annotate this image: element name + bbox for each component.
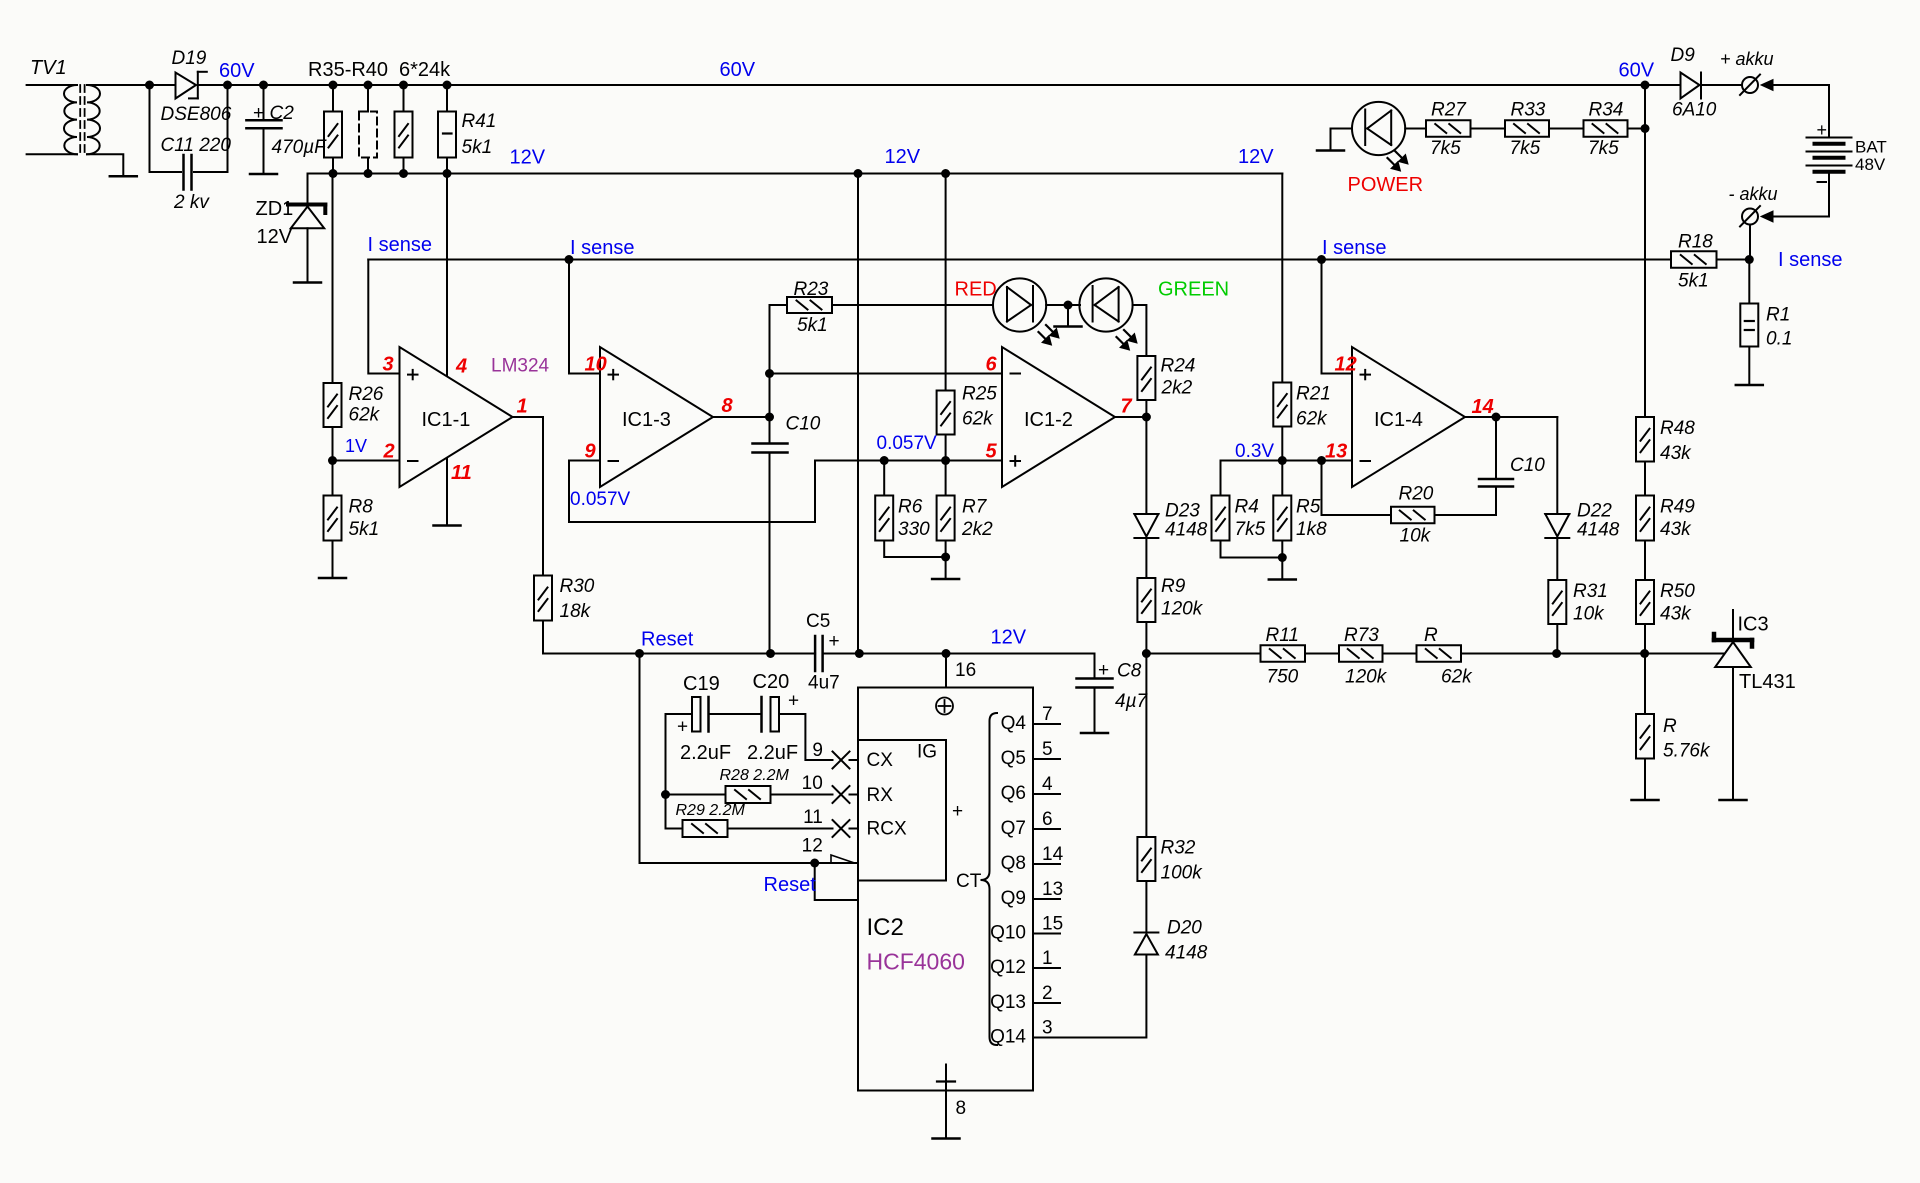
svg-text:6*24k: 6*24k — [399, 59, 451, 81]
ground (R1) — [1736, 384, 1763, 387]
svg-text:IG: IG — [917, 742, 937, 763]
svg-text:10: 10 — [585, 354, 607, 376]
svg-text:IC3: IC3 — [1738, 614, 1769, 636]
svg-text:HCF4060: HCF4060 — [867, 949, 965, 975]
svg-text:12V: 12V — [510, 147, 546, 169]
wire IC1-4 pin13 — [1221, 460, 1353, 462]
wire R30 to Reset rail — [543, 621, 640, 654]
svg-text:0.3V: 0.3V — [1235, 441, 1274, 462]
resistor R49 — [1636, 496, 1654, 541]
pin12 flag — [831, 855, 855, 863]
svg-text:IC2: IC2 — [867, 914, 904, 941]
node R4/R5 — [1278, 553, 1287, 562]
svg-text:R27: R27 — [1431, 100, 1467, 121]
svg-text:CT: CT — [956, 871, 982, 892]
capacitor C19 — [666, 713, 693, 715]
resistor R29 — [666, 828, 683, 830]
svg-text:10k: 10k — [1400, 526, 1432, 547]
ground (C2) — [250, 173, 277, 176]
wire IC1-1 pin2 — [333, 460, 400, 462]
svg-text:C19: C19 — [683, 673, 720, 695]
wire Reset rail — [640, 653, 816, 655]
resistor R4 — [1220, 461, 1222, 496]
svg-text:I sense: I sense — [570, 237, 634, 259]
node I sense right — [1745, 255, 1754, 264]
svg-text:TV1: TV1 — [30, 57, 67, 79]
svg-text:R: R — [1424, 625, 1438, 646]
resistor R50 — [1636, 580, 1654, 624]
svg-text:14: 14 — [1472, 396, 1494, 418]
svg-text:D19: D19 — [172, 48, 207, 69]
svg-text:Q12: Q12 — [990, 957, 1026, 978]
svg-text:4: 4 — [455, 356, 467, 378]
svg-text:48V: 48V — [1855, 155, 1886, 174]
capacitor C10 (IC1-3 output) — [753, 442, 788, 445]
svg-text:43k: 43k — [1660, 604, 1692, 625]
svg-text:12: 12 — [802, 836, 823, 857]
svg-text:2.2uF: 2.2uF — [680, 742, 731, 764]
svg-text:750: 750 — [1267, 667, 1299, 688]
resistor R36-R39 (dashed) — [367, 85, 369, 112]
svg-text:1: 1 — [517, 396, 528, 418]
resistor R8 — [324, 496, 342, 541]
resistor R40 — [403, 85, 405, 112]
wire IC2 pin8 ground — [945, 1091, 947, 1139]
svg-text:5k1: 5k1 — [349, 519, 380, 540]
ground (ZD1) — [294, 281, 321, 284]
svg-text:4: 4 — [1042, 774, 1053, 795]
svg-text:5k1: 5k1 — [797, 315, 828, 336]
svg-text:R34: R34 — [1589, 100, 1624, 121]
svg-text:Q14: Q14 — [990, 1027, 1026, 1048]
node R9/R11 — [1142, 649, 1151, 658]
node IC2 pin16 — [942, 649, 951, 658]
node 12V drop — [855, 649, 864, 658]
svg-text:R41: R41 — [462, 111, 497, 132]
wire IC1-3 pin10 from I sense — [569, 260, 600, 374]
svg-text:60V: 60V — [1619, 60, 1655, 82]
wire R34 to 60V branch — [1628, 128, 1646, 130]
diode D23 — [1134, 513, 1158, 515]
svg-text:- akku: - akku — [1729, 184, 1778, 204]
op-amp IC1-4 — [1352, 347, 1465, 487]
svg-text:0.057V: 0.057V — [570, 489, 631, 510]
svg-text:R49: R49 — [1660, 497, 1695, 518]
svg-text:R11: R11 — [1266, 625, 1299, 646]
svg-text:R28 2.2M: R28 2.2M — [720, 767, 790, 784]
svg-text:8: 8 — [722, 395, 734, 417]
arrow - akku — [1761, 211, 1773, 222]
svg-text:13: 13 — [1042, 879, 1063, 900]
wire R to TL431 — [1461, 653, 1724, 655]
svg-text:IC1-4: IC1-4 — [1374, 409, 1423, 431]
svg-text:R73: R73 — [1344, 625, 1379, 646]
svg-text:7k5: 7k5 — [1235, 519, 1266, 540]
resistor R 5.76k — [1644, 654, 1646, 715]
ground (R5) — [1269, 578, 1296, 581]
wire - akku to I sense node — [1749, 225, 1751, 260]
svg-text:5: 5 — [1042, 739, 1053, 760]
svg-text:4u7: 4u7 — [808, 673, 840, 694]
svg-text:Q6: Q6 — [1001, 783, 1026, 804]
wire R 5.76k to ground — [1644, 759, 1646, 801]
capacitor C11 bypass loop — [150, 85, 182, 172]
resistor R32 — [1137, 837, 1155, 881]
svg-text:+: + — [253, 103, 264, 124]
svg-text:Reset: Reset — [641, 629, 694, 651]
svg-text:4µ7: 4µ7 — [1115, 691, 1149, 712]
pin9 X mark — [833, 752, 850, 769]
resistor R73 — [1305, 653, 1339, 655]
wire 12V rail — [308, 173, 1283, 175]
svg-text:I sense: I sense — [1322, 237, 1386, 259]
LED GREEN — [1079, 278, 1132, 331]
svg-text:R: R — [1663, 716, 1677, 737]
svg-text:12: 12 — [1335, 354, 1357, 376]
svg-text:15: 15 — [1042, 914, 1063, 935]
wire battery to - akku — [1773, 216, 1829, 218]
svg-text:3: 3 — [1042, 1018, 1053, 1039]
TL431 IC3 — [1732, 610, 1734, 640]
svg-text:C10: C10 — [786, 414, 821, 435]
svg-text:2k2: 2k2 — [961, 519, 993, 540]
wire R4 bottom loop — [1221, 541, 1283, 558]
svg-text:7: 7 — [1121, 396, 1133, 418]
svg-text:IC1-2: IC1-2 — [1024, 409, 1073, 431]
svg-text:+: + — [788, 691, 799, 712]
resistor R25 — [945, 174, 947, 391]
wire 12V drop from rail — [857, 174, 859, 654]
svg-text:Q8: Q8 — [1001, 853, 1026, 874]
resistor R41 — [446, 85, 448, 112]
node 60V — [223, 81, 232, 90]
svg-text:4148: 4148 — [1165, 943, 1208, 964]
resistor R28 — [666, 794, 726, 796]
svg-text:120k: 120k — [1161, 599, 1204, 620]
resistor R 62k — [1383, 653, 1417, 655]
svg-text:62k: 62k — [1441, 667, 1473, 688]
node 0.057V — [880, 456, 889, 465]
ground (R7) — [932, 578, 959, 581]
pin10 X mark — [833, 786, 850, 803]
svg-text:9: 9 — [585, 441, 597, 463]
svg-text:Q13: Q13 — [990, 992, 1026, 1013]
svg-text:7k5: 7k5 — [1430, 138, 1461, 159]
resistor R9 — [1145, 538, 1147, 578]
svg-text:I sense: I sense — [1778, 249, 1842, 271]
terminal + akku — [1742, 77, 1758, 93]
svg-text:100k: 100k — [1161, 863, 1204, 884]
diode D19 — [150, 84, 176, 86]
svg-text:5: 5 — [986, 441, 998, 463]
svg-text:8: 8 — [956, 1098, 967, 1119]
svg-text:+: + — [677, 717, 688, 738]
ground (LED common) — [1067, 305, 1069, 327]
svg-text:10k: 10k — [1573, 604, 1605, 625]
svg-text:C8: C8 — [1117, 661, 1142, 682]
capacitor C5 — [814, 636, 817, 671]
svg-text:2: 2 — [1042, 983, 1053, 1004]
svg-text:IC1-3: IC1-3 — [622, 409, 671, 431]
wire IC1-1 pin11 to ground — [446, 458, 448, 526]
wire R6 bottom loop — [884, 541, 945, 558]
svg-text:R7: R7 — [962, 497, 988, 518]
svg-text:R33: R33 — [1511, 100, 1546, 121]
wire C20 to pin9 CX — [779, 714, 833, 760]
svg-text:470µF: 470µF — [272, 137, 328, 158]
wire I sense rail — [368, 259, 1671, 261]
svg-text:62k: 62k — [962, 409, 994, 430]
svg-text:R26: R26 — [349, 384, 384, 405]
svg-text:RCX: RCX — [867, 819, 907, 840]
svg-text:Q7: Q7 — [1001, 818, 1026, 839]
svg-text:TL431: TL431 — [1739, 671, 1796, 693]
svg-text:GREEN: GREEN — [1158, 279, 1229, 301]
svg-text:+: + — [1098, 660, 1109, 681]
diode D9 — [1645, 84, 1681, 86]
svg-text:6A10: 6A10 — [1672, 100, 1717, 121]
wire R32 branch — [1145, 654, 1147, 838]
transformer TV1 — [27, 84, 77, 86]
resistor R7 — [937, 496, 955, 541]
wire output node vertical — [769, 305, 771, 444]
svg-text:6: 6 — [1042, 809, 1053, 830]
wire secondary top — [87, 84, 150, 86]
wire GREEN LED to R24 — [1133, 305, 1147, 356]
wire IC1-2 output — [1115, 416, 1146, 418]
wire IC1-1 pin3 from I sense — [368, 260, 399, 374]
IC2 power symbol — [936, 698, 953, 715]
wire IC1-1 pin4 supply — [446, 174, 448, 377]
capacitor C8 — [1077, 677, 1113, 680]
svg-text:10: 10 — [802, 773, 823, 794]
svg-text:1V: 1V — [345, 436, 367, 456]
wire output node down to D23 — [1145, 417, 1147, 514]
svg-text:5k1: 5k1 — [1678, 271, 1709, 292]
resistor R1 — [1748, 260, 1750, 304]
wire IC1-1 output to R30 — [513, 417, 544, 576]
capacitor C10 (IC1-4) — [1479, 478, 1513, 481]
capacitor C2 — [259, 81, 268, 90]
svg-text:R29 2.2M: R29 2.2M — [676, 802, 746, 819]
resistor R20 feedback — [1322, 461, 1392, 516]
ground (transformer) — [110, 175, 137, 178]
node R6/R7 — [941, 553, 950, 562]
svg-text:R21: R21 — [1296, 384, 1331, 405]
wire Reset to pin12 — [640, 654, 859, 864]
svg-text:+: + — [952, 801, 963, 822]
ground (R 5.76k) — [1632, 799, 1659, 802]
svg-text:R5: R5 — [1296, 497, 1321, 518]
svg-text:9: 9 — [812, 740, 823, 761]
svg-text:R32: R32 — [1161, 838, 1196, 859]
LED RED — [993, 278, 1046, 331]
svg-text:+: + — [1817, 120, 1828, 140]
op-amp IC1-1 — [400, 347, 513, 487]
resistor R5 — [1273, 496, 1291, 541]
LED POWER — [1352, 102, 1405, 155]
IC2 inner oscillator box IG — [858, 740, 946, 881]
svg-text:1k8: 1k8 — [1296, 519, 1327, 540]
ground (R8) — [319, 577, 346, 580]
svg-text:2.2uF: 2.2uF — [747, 742, 798, 764]
wire IC1-4 output — [1465, 416, 1557, 418]
wire IC1-3 pin9 loop — [569, 461, 1002, 523]
wire POWER LED to ground — [1331, 129, 1353, 151]
svg-text:3: 3 — [383, 354, 394, 376]
svg-text:R48: R48 — [1660, 418, 1695, 439]
resistor R33 — [1471, 128, 1506, 130]
svg-text:120k: 120k — [1345, 667, 1388, 688]
svg-text:7: 7 — [1042, 704, 1053, 725]
svg-text:43k: 43k — [1660, 519, 1692, 540]
svg-text:I sense: I sense — [368, 234, 432, 256]
wire D20 to Q14 — [1033, 955, 1146, 1038]
svg-text:R4: R4 — [1235, 497, 1259, 518]
resistor R18 — [1671, 251, 1717, 268]
IC2 internal ground — [945, 1065, 947, 1091]
svg-text:D23: D23 — [1165, 501, 1200, 522]
battery BAT 48V — [1828, 85, 1830, 138]
wire IC2 pin16 — [945, 654, 947, 688]
svg-text:R6: R6 — [898, 497, 923, 518]
resistor R31 — [1556, 538, 1558, 580]
svg-text:POWER: POWER — [1348, 174, 1424, 196]
wire R20 to C10 — [1435, 514, 1497, 516]
svg-text:12V: 12V — [257, 226, 293, 248]
svg-text:4148: 4148 — [1577, 520, 1620, 541]
svg-text:CX: CX — [867, 750, 894, 771]
wire 60V rail — [228, 84, 1646, 86]
svg-text:4148: 4148 — [1165, 520, 1208, 541]
svg-text:60V: 60V — [720, 59, 756, 81]
svg-text:6: 6 — [986, 354, 998, 376]
ground (POWER LED) — [1317, 149, 1344, 152]
wire to D22 — [1556, 417, 1558, 514]
svg-text:R24: R24 — [1161, 356, 1196, 377]
svg-text:14: 14 — [1042, 844, 1064, 865]
ground (IC2 pin8) — [933, 1137, 960, 1140]
svg-text:43k: 43k — [1660, 443, 1692, 464]
svg-text:ZD1: ZD1 — [256, 198, 294, 220]
wire IC1-4 pin12 from I sense — [1322, 260, 1353, 374]
wire C19 left to R28/R29 — [665, 714, 667, 829]
resistor R48 — [1636, 417, 1654, 462]
svg-text:18k: 18k — [560, 601, 592, 622]
svg-text:5.76k: 5.76k — [1663, 741, 1711, 762]
node 1V — [332, 427, 334, 496]
svg-text:IC1-1: IC1-1 — [422, 409, 471, 431]
zener ZD1 — [307, 174, 309, 204]
svg-text:R35-R40: R35-R40 — [308, 59, 388, 81]
svg-text:R8: R8 — [349, 497, 374, 518]
svg-text:R18: R18 — [1678, 232, 1713, 253]
svg-text:2k2: 2k2 — [1161, 378, 1193, 399]
resistor R27 — [1405, 128, 1426, 130]
capacitor C20 — [760, 697, 763, 732]
svg-text:5k1: 5k1 — [462, 137, 493, 158]
ground (TL431) — [1720, 799, 1747, 802]
svg-text:+ akku: + akku — [1720, 49, 1774, 69]
diode D20 — [1145, 881, 1147, 933]
transformer core — [79, 85, 81, 154]
svg-text:C10: C10 — [1510, 455, 1545, 476]
wire IC1-2 pin6 — [770, 373, 1003, 375]
resistor R30 — [534, 576, 552, 621]
svg-text:0.057V: 0.057V — [877, 433, 938, 454]
resistor R21 — [1281, 174, 1283, 383]
svg-text:+: + — [829, 631, 840, 652]
svg-text:R23: R23 — [794, 279, 829, 300]
IC2 box — [858, 688, 1033, 1091]
svg-text:Q9: Q9 — [1001, 888, 1026, 909]
svg-text:BAT: BAT — [1855, 138, 1887, 157]
svg-text:2 kv: 2 kv — [173, 192, 210, 213]
svg-text:RED: RED — [955, 279, 997, 301]
svg-text:11: 11 — [803, 807, 823, 828]
svg-text:DSE806: DSE806 — [161, 104, 232, 125]
resistor R26 — [332, 174, 334, 384]
resistor R6 — [883, 461, 885, 496]
svg-text:13: 13 — [1325, 441, 1347, 463]
resistor R34 — [1549, 128, 1584, 130]
svg-text:60V: 60V — [219, 60, 255, 82]
svg-text:2: 2 — [383, 441, 395, 463]
svg-text:12V: 12V — [885, 146, 921, 168]
wire pin12 loop — [815, 863, 858, 900]
wire 12V to C8 — [946, 654, 1095, 679]
resistor R11 — [1146, 653, 1260, 655]
pin11 X mark — [833, 820, 850, 837]
wire 60V branch down to R48 — [1644, 85, 1646, 417]
op-amp IC1-2 — [1002, 347, 1115, 487]
node LED common — [1064, 301, 1073, 310]
svg-text:1: 1 — [1042, 948, 1053, 969]
svg-text:0.1: 0.1 — [1766, 329, 1792, 350]
svg-text:C2: C2 — [270, 103, 295, 124]
node 60V / R34 — [1641, 81, 1650, 90]
svg-text:Reset: Reset — [764, 874, 817, 896]
svg-text:62k: 62k — [349, 405, 381, 426]
svg-text:C20: C20 — [753, 671, 790, 693]
terminal - akku — [1742, 209, 1758, 225]
arrow + akku — [1761, 80, 1773, 91]
wire secondary bottom to ground — [87, 154, 123, 176]
svg-text:C5: C5 — [806, 611, 830, 632]
ground (C8) — [1081, 732, 1108, 735]
svg-text:LM324: LM324 — [491, 356, 550, 377]
svg-text:7k5: 7k5 — [1588, 138, 1619, 159]
svg-text:RX: RX — [867, 785, 894, 806]
svg-text:R1: R1 — [1766, 305, 1790, 326]
node at D19 anode — [145, 81, 154, 90]
svg-text:7k5: 7k5 — [1510, 138, 1541, 159]
svg-text:R30: R30 — [560, 576, 595, 597]
nodes on 60V rail — [329, 81, 338, 90]
svg-text:D22: D22 — [1577, 501, 1612, 522]
svg-text:R20: R20 — [1399, 484, 1434, 505]
svg-text:16: 16 — [955, 660, 976, 681]
svg-text:R31: R31 — [1573, 581, 1608, 602]
svg-text:R9: R9 — [1161, 576, 1186, 597]
svg-text:12V: 12V — [1238, 146, 1274, 168]
diode D22 — [1545, 513, 1569, 515]
resistor R23 — [770, 304, 788, 306]
wire R1 to ground — [1748, 347, 1750, 386]
resistor R35 — [332, 85, 334, 112]
svg-text:62k: 62k — [1296, 409, 1328, 430]
svg-text:Q10: Q10 — [990, 923, 1026, 944]
